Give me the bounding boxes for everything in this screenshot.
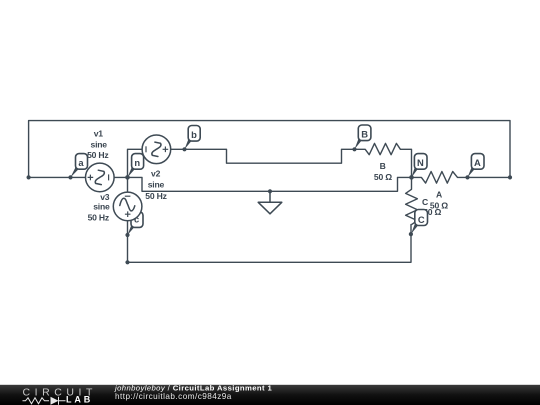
svg-text:n: n	[134, 157, 140, 168]
svg-text:C: C	[422, 197, 428, 207]
node flag a	[71, 154, 88, 178]
wire node n down to v3	[127, 177, 129, 192]
node flag A	[468, 154, 485, 178]
svg-text:LAB: LAB	[66, 395, 93, 405]
svg-text:sine: sine	[148, 180, 165, 190]
svg-text:B: B	[380, 161, 386, 171]
node flag n	[128, 154, 144, 178]
node flag b	[185, 126, 201, 150]
label resistor A value	[430, 189, 448, 210]
svg-text:50 Hz: 50 Hz	[88, 212, 109, 222]
footer bar	[0, 385, 540, 405]
label v1	[87, 129, 108, 161]
svg-text:50 Hz: 50 Hz	[145, 191, 166, 201]
wire v2 right to node b and step segment	[171, 149, 355, 163]
resistor A 50ohm	[412, 172, 511, 184]
wire node n up to v2	[128, 149, 143, 177]
svg-text:sine: sine	[93, 202, 110, 212]
svg-text:http://circuitlab.com/c984z9a: http://circuitlab.com/c984z9a	[115, 392, 232, 401]
svg-text:A: A	[474, 157, 481, 168]
node flag B	[355, 125, 371, 149]
label v2	[145, 169, 166, 201]
wire left horizontal to v1	[29, 176, 86, 178]
svg-text:b: b	[191, 129, 197, 140]
resistor B 50ohm	[355, 143, 412, 177]
label v3	[88, 192, 110, 223]
svg-text:sine: sine	[90, 140, 107, 150]
svg-text:v3: v3	[100, 192, 110, 202]
svg-text:50 Ω: 50 Ω	[430, 200, 448, 210]
ground	[258, 191, 282, 214]
voltage source v3	[113, 192, 142, 221]
svg-text:50 Ω: 50 Ω	[374, 172, 392, 182]
node flag c	[128, 212, 144, 235]
label resistor B value	[374, 161, 392, 182]
node flag N	[412, 154, 428, 178]
svg-text:50 Hz: 50 Hz	[87, 150, 108, 160]
wire node n to ground rail	[128, 177, 412, 191]
svg-text:C: C	[418, 214, 425, 225]
svg-text:v1: v1	[94, 129, 104, 139]
svg-text:A: A	[436, 189, 442, 199]
voltage source v2	[142, 135, 171, 164]
svg-text:B: B	[361, 128, 368, 139]
svg-text:N: N	[417, 157, 424, 168]
node flag C	[411, 210, 428, 235]
wire v3 bottom to bottom rail	[128, 221, 412, 263]
resistor C 50ohm	[406, 177, 418, 224]
wire top rail	[29, 121, 510, 178]
svg-text:v2: v2	[151, 169, 161, 179]
wire v1 right to node n	[114, 176, 127, 178]
svg-text:a: a	[78, 157, 84, 168]
voltage source v1	[86, 163, 115, 192]
footer logo zigzag + diode	[23, 397, 66, 405]
